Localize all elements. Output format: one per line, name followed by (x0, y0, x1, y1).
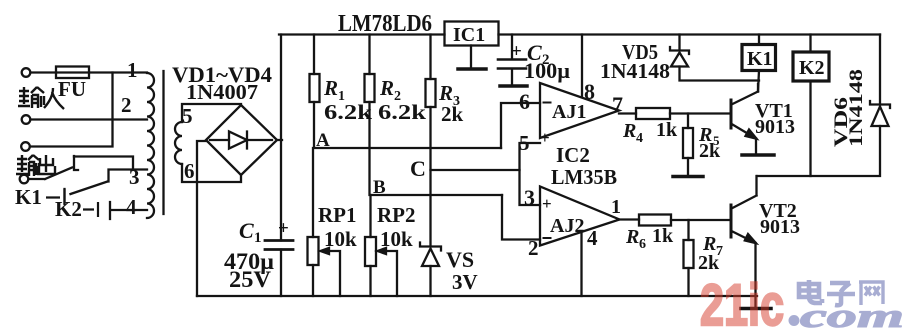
svg-text:2: 2 (528, 236, 539, 260)
svg-text:10k: 10k (324, 227, 357, 251)
svg-text:4: 4 (587, 226, 598, 250)
svg-text:4: 4 (636, 131, 643, 146)
svg-text:K2: K2 (799, 57, 825, 79)
svg-text:IC2: IC2 (556, 143, 590, 167)
svg-text:C: C (239, 218, 254, 243)
svg-text:5: 5 (519, 131, 530, 155)
svg-text:K2: K2 (55, 197, 82, 221)
svg-text:3: 3 (129, 165, 140, 189)
svg-text:100µ: 100µ (524, 58, 570, 83)
svg-text:+: + (540, 128, 550, 147)
svg-text:RP1: RP1 (318, 203, 357, 227)
svg-text:9013: 9013 (760, 216, 800, 238)
svg-text:25V: 25V (229, 267, 271, 292)
svg-text:C: C (410, 156, 426, 181)
svg-text:R: R (622, 120, 636, 142)
svg-text:10k: 10k (380, 227, 413, 251)
svg-text:AJ2: AJ2 (550, 215, 584, 237)
svg-text:K1: K1 (15, 185, 42, 209)
svg-text:6.2k: 6.2k (324, 100, 372, 124)
svg-text:IC1: IC1 (453, 24, 485, 46)
svg-text:7: 7 (612, 92, 623, 117)
svg-text:6.2k: 6.2k (378, 100, 426, 124)
svg-text:1k: 1k (652, 225, 674, 247)
svg-text:1k: 1k (656, 119, 678, 141)
svg-text:R: R (323, 76, 338, 100)
svg-text:R: R (379, 76, 394, 100)
svg-text:VS: VS (446, 247, 474, 272)
svg-text:1N4148: 1N4148 (846, 69, 867, 147)
svg-text:AJ1: AJ1 (552, 101, 586, 123)
svg-text:6: 6 (639, 237, 646, 252)
svg-text:4: 4 (126, 195, 137, 219)
svg-text:1: 1 (127, 58, 138, 82)
svg-text:com: com (800, 298, 902, 329)
svg-text:2k: 2k (441, 102, 464, 126)
svg-text:+: + (542, 194, 552, 213)
svg-text:1N4007: 1N4007 (186, 80, 258, 104)
svg-text:5: 5 (182, 104, 193, 128)
svg-text:FU: FU (58, 77, 86, 101)
svg-text:2: 2 (121, 93, 132, 117)
svg-text:LM78LD6: LM78LD6 (338, 11, 432, 37)
svg-text:1N4148: 1N4148 (600, 59, 670, 83)
svg-text:B: B (373, 177, 386, 198)
svg-text:+: + (278, 218, 289, 239)
svg-text:1: 1 (611, 196, 621, 218)
svg-text:6: 6 (184, 159, 195, 183)
svg-text:RP2: RP2 (377, 203, 416, 227)
svg-text:+: + (511, 41, 522, 62)
svg-text:R: R (625, 226, 639, 248)
svg-text:K1: K1 (747, 48, 773, 70)
svg-text:3: 3 (524, 185, 535, 210)
svg-text:21ic: 21ic (700, 273, 784, 329)
svg-text:LM35B: LM35B (551, 165, 617, 189)
svg-text:2k: 2k (698, 252, 720, 274)
svg-text:3V: 3V (452, 270, 478, 294)
svg-text:9013: 9013 (755, 116, 795, 138)
svg-text:A: A (316, 130, 330, 151)
svg-text:2k: 2k (699, 140, 721, 162)
svg-text:6: 6 (519, 89, 530, 114)
svg-text:1: 1 (254, 230, 262, 246)
